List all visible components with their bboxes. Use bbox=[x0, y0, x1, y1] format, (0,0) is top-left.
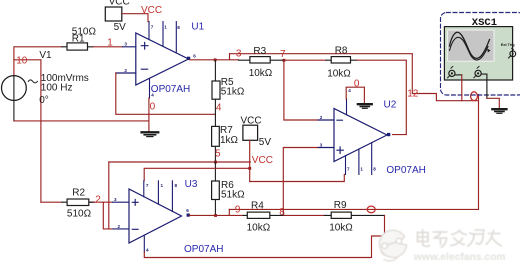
svg-text:V1: V1 bbox=[39, 50, 52, 61]
svg-text:10: 10 bbox=[16, 55, 28, 66]
wire node 9 long run above R4 R9 to scope channel B bbox=[229, 95, 478, 210]
wire node 7 drop to U2 minus input bbox=[284, 60, 318, 120]
svg-text:5V: 5V bbox=[259, 137, 272, 148]
svg-text:8: 8 bbox=[279, 207, 285, 218]
wire U1 output to R3 bbox=[190, 59, 239, 61]
svg-text:3: 3 bbox=[124, 42, 127, 47]
svg-text:5: 5 bbox=[215, 149, 221, 160]
wire terminal B to ground bbox=[487, 98, 499, 108]
VCC supply box middle bbox=[241, 116, 272, 148]
svg-text:R3: R3 bbox=[253, 46, 266, 57]
oscilloscope XSC1 dashed selection box bbox=[441, 13, 520, 96]
svg-text:12: 12 bbox=[407, 89, 419, 100]
wire node 10 label stub through the 10 text bbox=[14, 59, 41, 61]
svg-text:2: 2 bbox=[118, 224, 121, 229]
svg-text:51kΩ: 51kΩ bbox=[221, 86, 245, 97]
resistor R5 bbox=[212, 61, 245, 115]
svg-text:U2: U2 bbox=[384, 100, 397, 111]
wire node 2 drop to U3 minus line bbox=[103, 202, 113, 229]
svg-text:3: 3 bbox=[320, 143, 323, 148]
svg-text:10kΩ: 10kΩ bbox=[329, 222, 353, 233]
oscilloscope trace arrow bbox=[487, 49, 490, 53]
op-amp U3 bbox=[113, 181, 190, 252]
svg-text:100 Hz: 100 Hz bbox=[41, 82, 73, 93]
oscilloscope trace B bbox=[450, 37, 489, 60]
junction R6 bottom at U3 output bbox=[214, 214, 217, 217]
wire terminal A drop to channel A line bbox=[461, 75, 463, 101]
svg-text:VCC: VCC bbox=[141, 5, 162, 16]
wire U3 output to R4 bbox=[190, 214, 244, 216]
resistor R8 bbox=[326, 45, 357, 79]
wire U2 pin 4 to ground bbox=[346, 87, 364, 103]
wire terminal A stub bbox=[455, 74, 462, 76]
op-amp U1 bbox=[116, 22, 190, 99]
ext trig terminal bbox=[510, 51, 516, 57]
svg-text:2: 2 bbox=[124, 68, 127, 73]
terminal A bbox=[449, 70, 455, 76]
voltage source V1 bbox=[2, 76, 38, 121]
resistor R1 bbox=[62, 27, 96, 51]
watermark chinese characters bbox=[418, 230, 502, 247]
resistor R4 bbox=[243, 201, 284, 234]
svg-text:7: 7 bbox=[280, 49, 286, 60]
watermark logo circle bbox=[379, 230, 406, 261]
svg-text:6: 6 bbox=[186, 208, 189, 213]
svg-text:9: 9 bbox=[235, 205, 241, 216]
svg-text:10kΩ: 10kΩ bbox=[327, 68, 351, 79]
svg-text:4: 4 bbox=[146, 248, 149, 253]
resistor R9 bbox=[324, 200, 384, 233]
ground symbol below U1 bbox=[142, 132, 159, 136]
wire VCC to U3 pin 7 bbox=[144, 168, 250, 181]
oscilloscope trace A bbox=[450, 32, 490, 58]
wire V1 minus to ground bbox=[14, 120, 149, 122]
svg-text:U3: U3 bbox=[185, 179, 198, 190]
svg-text:www.elecfans.com: www.elecfans.com bbox=[413, 252, 506, 263]
oscilloscope screen bbox=[448, 30, 494, 61]
wire node 8 drop from U2 plus input bbox=[283, 148, 318, 216]
op-amp U2 bbox=[318, 99, 390, 174]
svg-text:R4: R4 bbox=[251, 201, 264, 212]
svg-text:1: 1 bbox=[164, 25, 167, 30]
wire U1 minus input to node 4 rail bbox=[116, 73, 216, 114]
svg-text:4: 4 bbox=[216, 102, 222, 113]
wire R3 right to R8 left bbox=[284, 59, 326, 61]
resistor R3 bbox=[239, 46, 284, 79]
svg-text:VCC: VCC bbox=[252, 155, 273, 166]
wire node 3 jog up to scope line bbox=[229, 54, 231, 60]
svg-text:Ext Trig: Ext Trig bbox=[501, 43, 516, 47]
ground symbol above U2 bbox=[358, 104, 372, 108]
svg-text:51kΩ: 51kΩ bbox=[221, 190, 245, 201]
svg-text:8: 8 bbox=[177, 25, 180, 30]
wire VCC to U2 pin 7 bbox=[250, 174, 345, 181]
svg-text:R9: R9 bbox=[334, 200, 347, 211]
wire node 1: R1 to U1 plus input bbox=[93, 46, 123, 48]
svg-text:7: 7 bbox=[146, 183, 149, 188]
wire R9 right down and around to U3 pin 4 ground net bbox=[144, 215, 384, 257]
wire U3 minus drop bbox=[108, 162, 110, 229]
wire R8 right to node 12 feedback from U2 output bbox=[357, 60, 407, 134]
open net 0 marker on bottom run bbox=[367, 206, 375, 213]
svg-text:2: 2 bbox=[95, 195, 101, 206]
wire terminal B stub bbox=[481, 74, 487, 98]
wire VCC box to U1 pin 7 bbox=[122, 14, 148, 22]
ground symbol near oscilloscope bbox=[492, 109, 506, 113]
svg-text:1kΩ: 1kΩ bbox=[220, 135, 239, 146]
junction node 7 bbox=[283, 59, 286, 62]
svg-text:R8: R8 bbox=[335, 45, 348, 56]
wire node 5 rail to U3 minus drop bbox=[109, 161, 251, 163]
svg-text:2: 2 bbox=[320, 115, 323, 120]
open net 0 marker near scope bbox=[471, 92, 478, 101]
resistor R2 bbox=[41, 187, 94, 219]
svg-text:R1: R1 bbox=[72, 34, 85, 45]
svg-text:1: 1 bbox=[161, 183, 164, 188]
wire node 10 drop to R2 bbox=[40, 60, 42, 202]
wire node 10: V1 plus lead up to corner and across to R1 bbox=[14, 47, 62, 76]
svg-text:4: 4 bbox=[348, 88, 351, 93]
svg-text:510Ω: 510Ω bbox=[67, 208, 92, 219]
wire U1 pin 4 to ground bbox=[148, 98, 150, 132]
junction at node 5 column bbox=[214, 161, 217, 164]
svg-text:7: 7 bbox=[347, 166, 350, 171]
svg-text:0: 0 bbox=[354, 78, 360, 89]
svg-text:0°: 0° bbox=[39, 95, 49, 106]
svg-text:10kΩ: 10kΩ bbox=[249, 68, 273, 79]
wire node 3 long run to scope channel A bbox=[230, 54, 478, 101]
wire node 9 jog up to scope line bbox=[228, 209, 230, 215]
svg-text:3: 3 bbox=[236, 48, 242, 59]
svg-text:5V: 5V bbox=[114, 22, 127, 33]
wire node 2 into U3 plus input bbox=[94, 201, 113, 203]
oscilloscope body bbox=[444, 27, 512, 80]
svg-text:OP07AH: OP07AH bbox=[386, 165, 425, 176]
terminal B bbox=[475, 70, 481, 76]
svg-text:8: 8 bbox=[175, 183, 178, 188]
svg-text:R2: R2 bbox=[72, 187, 85, 198]
svg-text:1: 1 bbox=[360, 166, 363, 171]
svg-text:U1: U1 bbox=[191, 21, 204, 32]
junction VCC middle bbox=[248, 167, 251, 170]
wire R4 right to R9 left bbox=[285, 214, 325, 216]
svg-text:3: 3 bbox=[114, 197, 117, 202]
svg-text:6: 6 bbox=[193, 53, 196, 58]
VCC supply box top left bbox=[105, 0, 129, 33]
svg-text:8: 8 bbox=[373, 166, 376, 171]
resistor R6 bbox=[212, 162, 246, 215]
svg-text:1: 1 bbox=[107, 38, 113, 49]
wire VCC box down to supply rail bbox=[249, 140, 251, 181]
svg-text:OP07AH: OP07AH bbox=[151, 84, 190, 95]
svg-text:OP07AH: OP07AH bbox=[184, 244, 223, 255]
svg-text:0: 0 bbox=[150, 102, 156, 113]
junction at R5 top bbox=[214, 58, 217, 61]
resistor R7 bbox=[212, 114, 239, 162]
svg-text:10kΩ: 10kΩ bbox=[247, 222, 271, 233]
svg-text:7: 7 bbox=[151, 25, 154, 30]
